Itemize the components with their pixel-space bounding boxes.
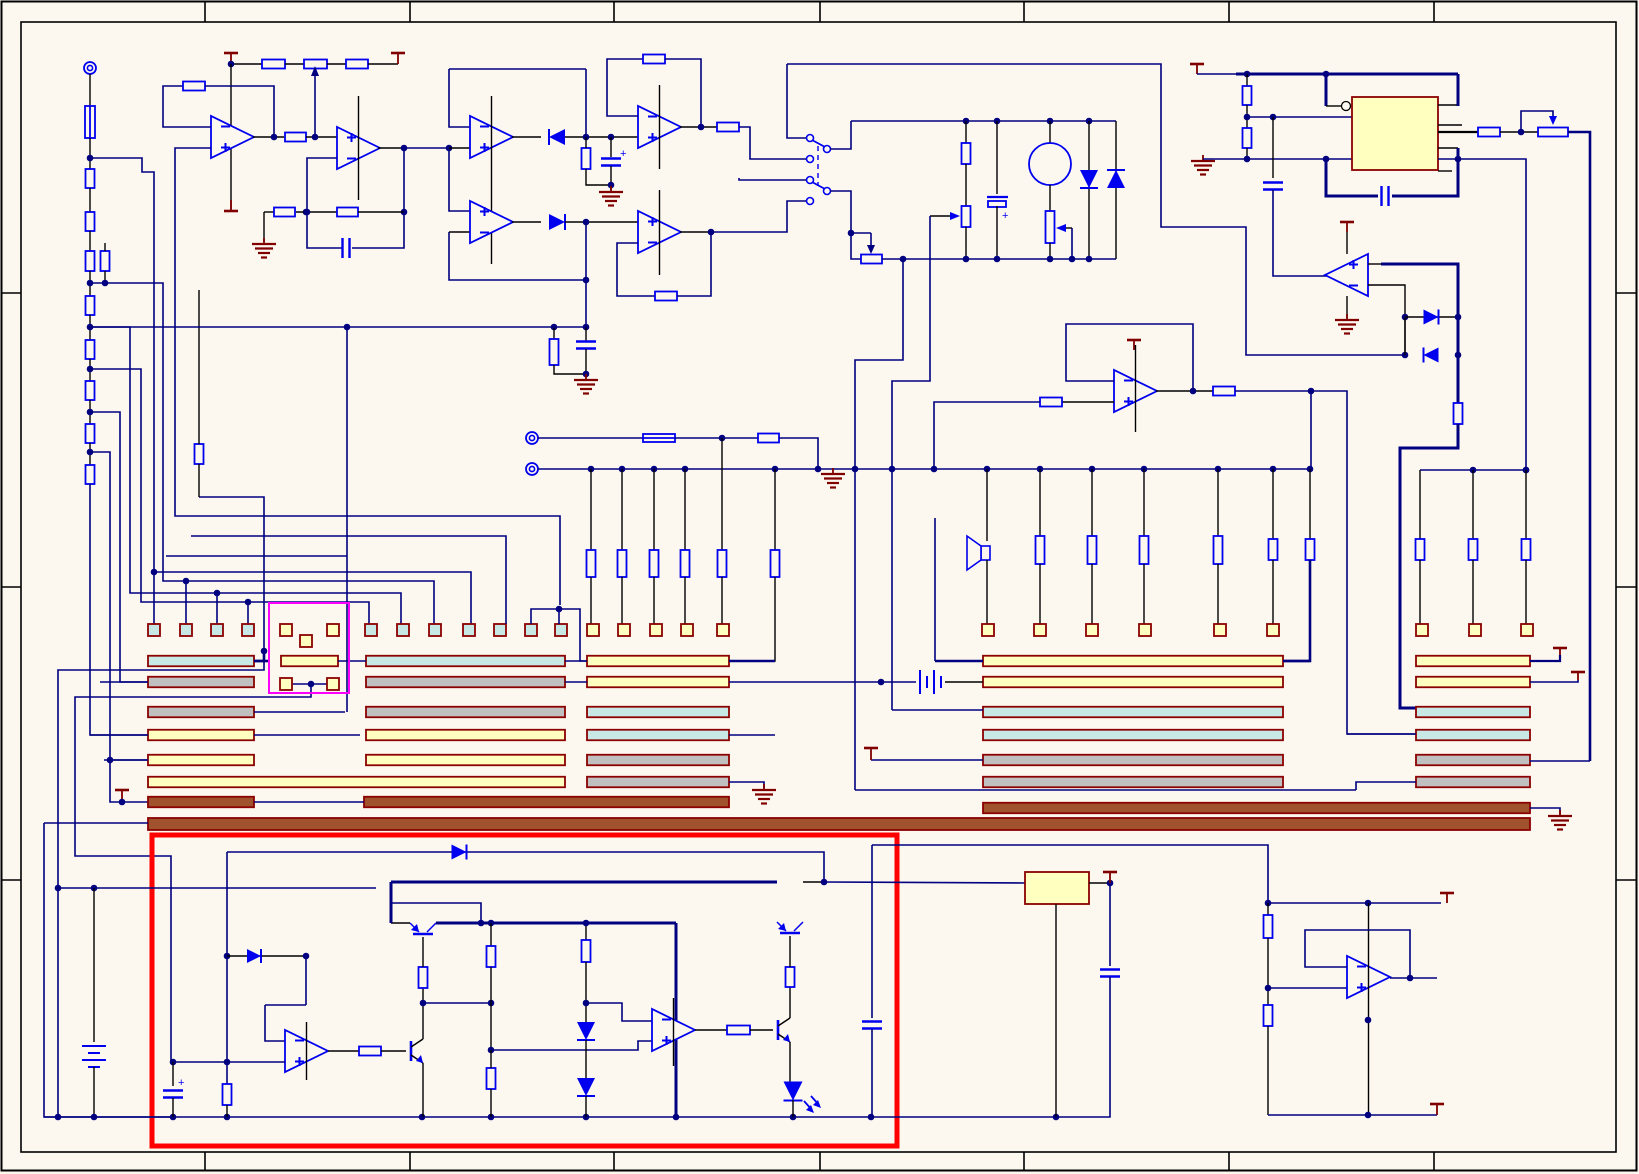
wire R10-R11: [285, 63, 304, 65]
battery BT2: [82, 1046, 106, 1067]
wire cap loop right: [352, 212, 404, 248]
junction rail j4: [682, 466, 689, 473]
junction in node: [446, 145, 453, 152]
pad P656: [650, 624, 662, 636]
junction rail d3: [170, 1114, 177, 1121]
wire U13 +in: [1268, 987, 1347, 989]
ground GND4: [1335, 314, 1359, 334]
resistor Rs4: [681, 550, 690, 577]
junction node B: [87, 324, 94, 331]
wire row2 battery: [729, 681, 916, 683]
junction reg out: [1107, 880, 1114, 887]
pad P469: [463, 624, 475, 636]
wire right col 1 lower: [1419, 560, 1421, 624]
junction rail d6: [488, 1114, 495, 1121]
wire R26 right: [1235, 391, 1416, 734]
resistor Rr3: [1522, 539, 1531, 560]
wire R4 bottom: [104, 271, 106, 283]
pad P403: [397, 624, 409, 636]
wire reg out drop: [1109, 883, 1111, 966]
wire thick drop: [675, 923, 678, 1117]
wire tap F: [90, 158, 471, 624]
wire RP2 bottom: [965, 227, 967, 259]
wire right rail: [1420, 469, 1526, 471]
wire loop down: [585, 69, 587, 137]
bus bar y682 x983: [983, 677, 1283, 688]
junction pad2 tap: [183, 578, 190, 585]
junction cap node: [304, 209, 311, 216]
wire cap6 line: [172, 1062, 174, 1086]
resistor R25: [1454, 403, 1463, 424]
wire R17 bottom: [586, 169, 611, 185]
wire R37 top: [789, 936, 791, 967]
wire R32 top: [422, 937, 424, 967]
wire cap2 bottom: [610, 166, 612, 190]
pad P435: [429, 624, 441, 636]
wire net top long: [787, 64, 1405, 355]
junction v586 a: [583, 1000, 590, 1007]
bus bar y760 x587: [587, 755, 729, 766]
op-amp U9: [1114, 345, 1157, 432]
bus bar y682 x587: [587, 677, 729, 688]
resistor Rm1: [1036, 536, 1045, 564]
pad P154: [148, 624, 160, 636]
resistor R13 feedback: [183, 82, 205, 91]
junction top n4: [1086, 118, 1093, 125]
resistor Rs1: [587, 550, 596, 577]
ground GND2: [599, 186, 623, 206]
junction u13 out: [1407, 975, 1414, 982]
junction top n3: [1047, 118, 1054, 125]
wire filter stub1: [553, 327, 555, 339]
junction u13 a: [1265, 900, 1272, 907]
wire row5 left feed: [104, 759, 148, 761]
wire U10 out: [328, 1050, 359, 1052]
wire mid col 4 lower: [1217, 564, 1219, 624]
pad P1145: [1139, 624, 1151, 636]
wire row2 gap link: [565, 681, 587, 683]
connector J3: [526, 463, 538, 475]
resistor Rs6: [771, 550, 780, 577]
junction q2c node: [420, 1000, 427, 1007]
pad P1040: [1034, 624, 1046, 636]
junction filter a: [551, 324, 558, 331]
junction rail j1: [588, 466, 595, 473]
bus bar y760 x983: [983, 755, 1283, 766]
wire row2 left stub: [100, 681, 148, 683]
junction rail j10: [984, 466, 991, 473]
wire J1 to fuse: [89, 74, 91, 106]
resistor R17: [582, 148, 591, 169]
wire pot to rail: [882, 258, 1116, 260]
annotation box magenta: [269, 603, 349, 693]
wire mid col 2 upper: [1091, 469, 1093, 536]
junction thick b: [488, 920, 495, 927]
ground GND3: [1191, 155, 1215, 175]
wire D3 line: [1088, 121, 1090, 259]
wire row4 right link: [254, 734, 360, 736]
pad P1220: [1214, 624, 1226, 636]
connector J1: [84, 62, 96, 74]
resistor R20 feedback: [655, 292, 677, 301]
wire jog to bar: [254, 651, 264, 661]
diode D8: [247, 949, 261, 963]
ground GND1: [252, 238, 276, 258]
wire U6 out to switch: [711, 201, 806, 232]
wire pin5 net: [1247, 158, 1352, 160]
resistor R18 feedback: [643, 55, 665, 64]
wire brown left link: [254, 801, 364, 803]
capacitor C6 polarized: [163, 1077, 184, 1098]
wire U6 out: [680, 231, 711, 233]
junction node A: [87, 280, 94, 287]
junction R26 node: [1308, 388, 1315, 395]
junction R22-R23: [1244, 114, 1251, 121]
wire mid col 3 lower: [1143, 564, 1145, 624]
junction R23 node: [1244, 156, 1251, 163]
wire mid col 4 upper: [1217, 469, 1219, 536]
wire net816: [110, 760, 148, 802]
junction bot n3: [1047, 256, 1054, 263]
pad P988: [982, 624, 994, 636]
resistor Rs2: [618, 550, 627, 577]
wire U8 +in: [1368, 263, 1381, 265]
junction jog node: [261, 648, 268, 655]
bus bar y661 x281: [281, 656, 338, 667]
resistor R38: [1264, 915, 1273, 938]
wire feed pad500: [191, 536, 506, 624]
ground GND9: [574, 374, 598, 394]
wire mid col 2 lower: [1091, 564, 1093, 624]
wire S1 pole1 feed: [787, 64, 806, 138]
resistor R7: [86, 381, 95, 400]
junction R15-R16: [303, 209, 310, 216]
pad P687: [681, 624, 693, 636]
resistor Rm3: [1140, 536, 1149, 564]
pad P371: [365, 624, 377, 636]
wire loop up: [585, 222, 587, 280]
junction rail j14: [1215, 466, 1222, 473]
wire long y790: [855, 789, 1356, 791]
wire U13 fb: [1305, 930, 1410, 978]
wire row1 right feed: [935, 660, 983, 663]
wire q2c link: [423, 1002, 491, 1004]
junction rail j13: [1141, 466, 1148, 473]
wire loop to filter: [585, 280, 587, 327]
wire U9 +in: [1062, 401, 1114, 403]
junction D5 left: [1402, 314, 1409, 321]
wire sense col 6 upper: [774, 469, 776, 550]
wire RP3 bottom: [1049, 243, 1051, 259]
junction v347 top: [344, 324, 351, 331]
switch S1 linkage: [817, 146, 819, 186]
wire U2 fb down: [403, 148, 405, 212]
wire drop to rail: [1310, 391, 1312, 470]
wire filter stub2: [585, 327, 587, 341]
wire pin8 drop: [1457, 74, 1460, 106]
wire U4 fb left: [607, 59, 643, 116]
junction rail d9: [790, 1114, 797, 1121]
transistor Q1: [410, 923, 436, 934]
junction pad1 tap: [151, 569, 158, 576]
ground GND7: [1548, 810, 1572, 830]
resistor R34: [487, 1068, 496, 1089]
junction rail b: [1323, 71, 1330, 78]
junction filter c: [583, 371, 590, 378]
junction node F: [87, 155, 94, 162]
wire row1 mid link: [565, 660, 587, 662]
wire tap B: [90, 327, 401, 624]
wire col 1310 upper: [1309, 469, 1311, 539]
wire v855 lower: [854, 469, 856, 790]
junction rail d11: [1053, 1114, 1060, 1121]
bus bar y782 x587: [587, 777, 729, 788]
bus bar y712 x983: [983, 707, 1283, 718]
resistor Rm2: [1088, 536, 1097, 564]
pad P281: [280, 624, 292, 636]
power port VP9: [1440, 893, 1454, 903]
wire R22-R23: [1246, 105, 1248, 128]
capacitor C1: [343, 238, 350, 258]
switch S1 pole 1: [807, 135, 831, 163]
junction v306 a: [303, 953, 310, 960]
junction U1 out: [271, 134, 278, 141]
junction rrail 2: [1523, 467, 1530, 474]
junction pad13 node: [556, 606, 563, 613]
wire mid col 3 upper: [1143, 469, 1145, 536]
wire sense col 2 upper: [621, 469, 623, 550]
power port VCC1: [115, 790, 129, 802]
resistor R14: [285, 133, 306, 142]
wire R21-RP2: [965, 164, 967, 206]
resistor R36: [727, 1026, 750, 1035]
potentiometer RP2: [962, 206, 971, 227]
potentiometer RP4: [1538, 128, 1568, 137]
resistor R40: [550, 339, 559, 365]
wire U2 out to U3 stage: [404, 147, 449, 149]
power port VP2: [391, 53, 405, 64]
junction y888 b: [91, 885, 98, 892]
resistor Rm5: [1269, 539, 1278, 560]
wire R8-R9: [89, 443, 91, 465]
wire row1 r-end: [1283, 660, 1310, 663]
wire R39 lower: [1267, 1026, 1269, 1115]
wire R21 top: [965, 121, 967, 143]
resistor R2: [86, 212, 95, 231]
bus bar y712 x148: [148, 707, 254, 718]
bus bar y735 x587: [587, 730, 729, 741]
wire U2 -in: [307, 158, 337, 212]
junction U9 out: [1190, 388, 1197, 395]
wire R14 to U2: [306, 136, 337, 138]
bus bar y760 x366: [366, 755, 565, 766]
junction plus node: [170, 1059, 177, 1066]
wire R34 upper: [490, 1050, 492, 1068]
wire right col 1 upper: [1419, 470, 1421, 539]
wire out pin link: [1438, 131, 1478, 133]
op-amp U8: [1325, 254, 1368, 296]
wire cap loop left: [307, 212, 342, 248]
resistor Rm4: [1214, 536, 1223, 564]
junction node A2: [102, 280, 109, 287]
wire row4 mid right: [729, 734, 775, 736]
wire U3 out: [512, 136, 541, 138]
capacitor C7: [1100, 970, 1120, 977]
wire diode net: [227, 852, 824, 882]
junction rail j15: [1270, 466, 1277, 473]
resistor Rs5: [718, 550, 727, 577]
wire y845: [872, 845, 1268, 903]
wire motor bottom lead: [1049, 185, 1051, 211]
wire cap6 lower: [172, 1098, 174, 1117]
capacitor C2 polarized: [601, 148, 626, 166]
wire v58 lower: [57, 888, 59, 1117]
bus bar y735 x983: [983, 730, 1283, 741]
junction v227 a: [224, 953, 231, 960]
wire R30 lower: [226, 1105, 228, 1117]
wire R34 lower: [490, 1089, 492, 1117]
diode D5: [1424, 310, 1439, 325]
wire U1 feedback left: [163, 86, 211, 127]
resistor R6: [86, 340, 95, 359]
wire sense col 6 lower: [729, 577, 775, 661]
wire J2 to fuse: [538, 437, 643, 439]
capacitor C5: [1263, 183, 1283, 190]
wire row1 mid right: [729, 660, 775, 663]
wire U1 +in: [175, 148, 560, 605]
wire tap E: [90, 452, 148, 760]
wire pin5c net: [1438, 159, 1526, 470]
bus bar y735 x366: [366, 730, 565, 741]
junction D5 right: [1455, 314, 1462, 321]
pad P593: [587, 624, 599, 636]
wire U6 fb: [617, 243, 655, 296]
wire row4 left feed: [90, 734, 148, 736]
wire tap C: [90, 369, 369, 624]
wire v347: [346, 327, 348, 712]
wire thick corner: [390, 882, 393, 923]
power port VP4: [1340, 222, 1354, 232]
power port VP6: [1553, 648, 1567, 655]
wire J3 rail: [538, 468, 1310, 470]
resistor R22: [1243, 86, 1252, 105]
svg-text:+: +: [178, 1077, 184, 1089]
wire R2-R3: [89, 231, 91, 251]
resistor R21: [962, 143, 971, 164]
wire row5 far feed: [1530, 760, 1590, 762]
bus bar brown mid: [364, 797, 729, 808]
bus bar y712 x1416: [1416, 707, 1530, 718]
transistor Q3: [778, 1018, 790, 1042]
resistor R32: [419, 967, 428, 988]
wire U9 fb: [1066, 324, 1193, 391]
wire U13 bottom rail: [1268, 1114, 1437, 1116]
junction D6 left: [1402, 352, 1409, 359]
diode D4: [1107, 170, 1125, 188]
wire sense col 4 upper: [684, 469, 686, 550]
wire right col 2 upper: [1472, 470, 1474, 539]
wire U1 out: [253, 136, 284, 138]
junction tap E node: [107, 757, 114, 764]
op-amp U5: [470, 201, 513, 243]
wire U13 out: [1390, 977, 1437, 979]
junction bot n5: [1086, 256, 1093, 263]
wire v491 mid: [490, 967, 492, 1050]
wire U6 fb right: [677, 232, 711, 296]
wire mid col 1 upper: [1039, 469, 1041, 536]
capacitor C4: [1382, 186, 1389, 206]
resistor R33: [487, 946, 496, 967]
resistor R31: [359, 1047, 381, 1056]
wire row6 gnd: [729, 782, 764, 788]
wire pad pair link: [292, 683, 327, 685]
junction v491 b: [488, 1047, 495, 1054]
wire battery right: [945, 681, 983, 683]
wire U5 -in: [449, 231, 470, 233]
wire R22 top: [1246, 74, 1248, 86]
junction rail j9: [931, 466, 938, 473]
transistor Q4: [777, 922, 803, 933]
bus bar y735 x148: [148, 730, 254, 741]
wire stub pad2: [185, 581, 187, 624]
pad P306 lower: [300, 635, 312, 647]
wire cap2 top: [610, 137, 612, 157]
wire d8 row: [227, 955, 306, 957]
junction rail d2: [91, 1114, 98, 1121]
wire jog long left: [58, 651, 264, 888]
wire motor top rail: [851, 120, 1116, 122]
annotation box red: [152, 835, 897, 1146]
ground GND6: [752, 784, 776, 804]
junction pad3 tap: [214, 590, 221, 597]
wire U2 out: [378, 147, 404, 149]
resistor R26: [1213, 387, 1235, 396]
bus bar y782 x983: [983, 777, 1283, 788]
wire row1 far feed: [1530, 655, 1560, 661]
connector J2: [526, 432, 538, 444]
wire gnd3 link: [1203, 158, 1247, 160]
resistor R9: [86, 465, 95, 484]
wire LED lower: [792, 1100, 794, 1117]
junction U4 out: [698, 124, 705, 131]
bus bar y712 x587: [587, 707, 729, 718]
wire U5 out: [512, 221, 541, 223]
wire U8 -in: [1368, 285, 1405, 355]
junction D1 node: [583, 134, 590, 141]
wire U3 loop top: [449, 68, 586, 70]
motor M1: [1029, 143, 1071, 185]
wire stub pad4: [247, 602, 249, 624]
wire v491 upper: [490, 923, 492, 946]
bus bar y782 x1416: [1416, 777, 1530, 788]
wire fb loop: [265, 1004, 306, 1006]
wire R27 left: [934, 402, 1040, 469]
power port VP1: [224, 53, 238, 64]
wire col 1273 upper: [1272, 469, 1274, 539]
wire IC bottom loop: [1392, 148, 1458, 196]
wire gnd stub: [264, 211, 274, 213]
junction v491 a: [488, 1000, 495, 1007]
wire U1 feedback right: [205, 86, 274, 137]
wire D5 row: [1405, 316, 1458, 318]
wire y888: [58, 887, 376, 889]
op-amp U3: [470, 96, 513, 264]
bus bar brown left: [148, 797, 254, 808]
op-amp U6: [638, 190, 681, 275]
pad Q2: [327, 678, 339, 690]
wire RP3 wiper down: [1071, 228, 1073, 259]
wire U4 fb right: [665, 59, 701, 127]
